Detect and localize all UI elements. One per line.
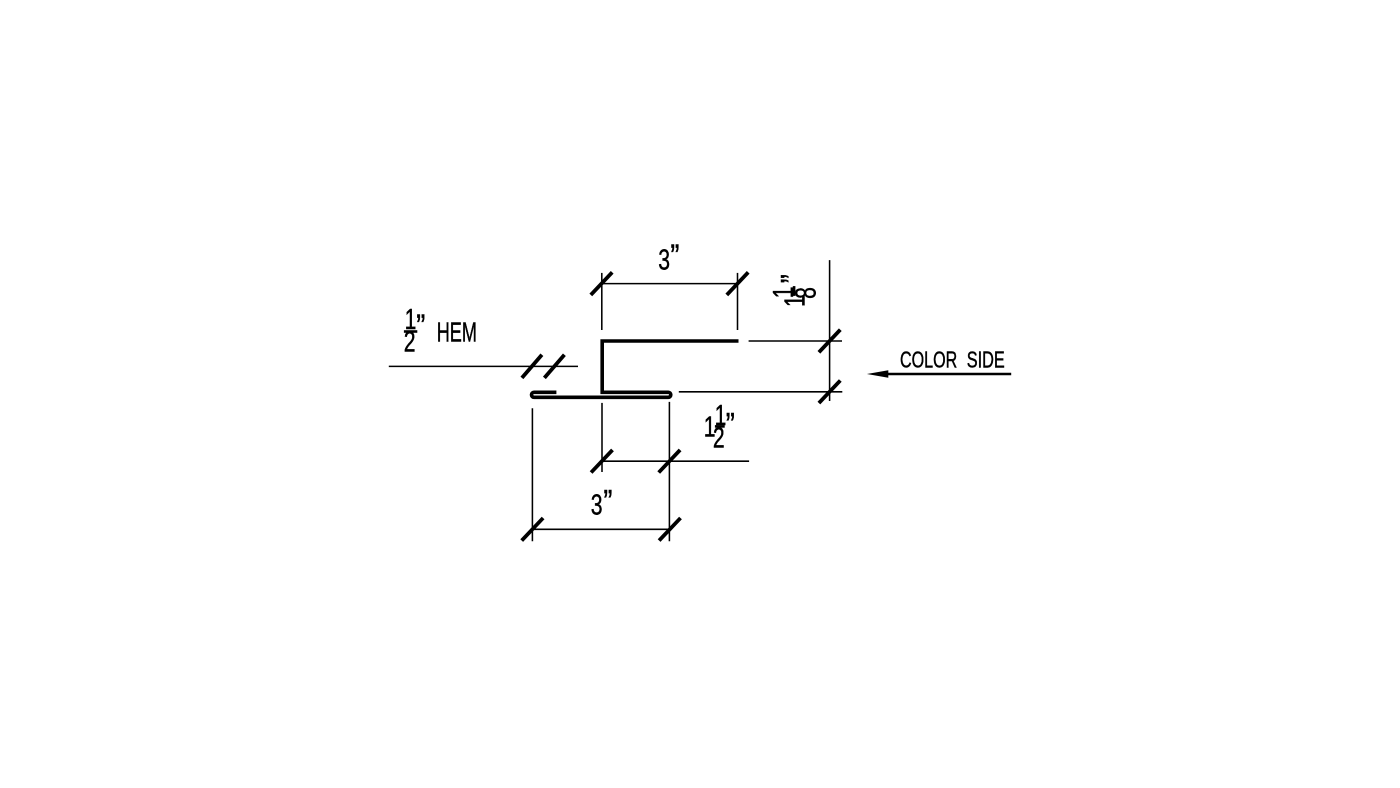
svg-text:2: 2 <box>713 422 725 454</box>
dimension line 1-1/2in <box>601 460 749 462</box>
svg-text:”: ” <box>670 239 679 275</box>
tick top-right <box>727 272 748 295</box>
extension line top-right <box>737 273 739 330</box>
label 3in top <box>658 239 679 276</box>
hem tick left <box>522 355 542 378</box>
svg-text:”: ” <box>775 274 811 283</box>
arrowhead color side <box>867 370 888 378</box>
label 1/2in HEM <box>404 304 477 358</box>
dimension line 3in top <box>601 283 738 285</box>
profile outline (flashing cross-section with hem) <box>532 341 739 397</box>
tick mid-right <box>659 450 680 473</box>
tick mid-left <box>591 450 612 473</box>
tick right-lower <box>819 381 840 404</box>
tick top-left <box>591 272 612 295</box>
svg-text:COLOR: COLOR <box>900 347 957 373</box>
label 1-1/8in rotated <box>768 274 823 307</box>
label COLOR SIDE <box>900 347 1005 373</box>
extension line right-lower <box>668 402 670 541</box>
svg-text:3: 3 <box>658 244 670 276</box>
svg-text:”: ” <box>603 485 612 521</box>
extension line top-left <box>601 273 603 330</box>
hem tick right <box>544 355 564 378</box>
label 3in bottom <box>591 485 613 521</box>
extension line middle <box>601 403 603 472</box>
arrow line color side <box>888 373 1012 375</box>
svg-text:2: 2 <box>404 326 416 358</box>
connector line upper right <box>749 340 842 342</box>
tick right-upper <box>819 330 840 353</box>
svg-text:3: 3 <box>591 489 603 521</box>
label 1-1/2in <box>704 400 735 455</box>
svg-text:SIDE: SIDE <box>967 348 1005 374</box>
dimension line 3in bottom <box>532 528 671 530</box>
svg-text:HEM: HEM <box>437 317 477 348</box>
leader line 1/2in hem <box>389 365 578 367</box>
svg-text:”: ” <box>416 309 425 345</box>
svg-text:”: ” <box>726 408 735 444</box>
tick bottom-right <box>659 518 680 541</box>
extension line bottom-left <box>531 408 533 541</box>
connector line lower right <box>679 391 843 393</box>
tick bottom-left <box>522 518 543 541</box>
dimension line 1-1/8in vertical right <box>829 260 831 401</box>
svg-text:8: 8 <box>790 287 822 299</box>
